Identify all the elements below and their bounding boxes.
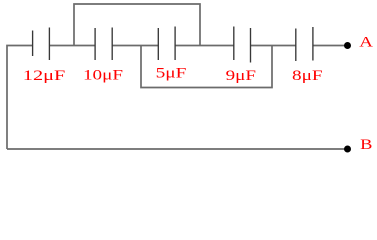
capacitor C2 10uF plates (95, 28, 112, 61)
svg-text:8μF: 8μF (292, 68, 323, 84)
wire: main segment C5 right plate to terminal A (313, 45, 348, 47)
node A terminal dot (344, 42, 351, 49)
wire: top bridge (up at x=74, across y=4, down at x=200) (74, 4, 200, 46)
capacitor C1 12uF plates (33, 28, 50, 61)
svg-text:B: B (360, 137, 372, 153)
svg-text:5μF: 5μF (156, 66, 187, 82)
wire: main segment C4 right plate to C5 left plate (junction at x=272) (251, 45, 296, 47)
wire: bottom bridge (down at x=141, across y=87.5, up at x=272) (141, 46, 272, 88)
svg-text:12μF: 12μF (23, 68, 66, 84)
wire: main segment C2 right plate to C3 left plate (junction at x=141) (112, 45, 158, 47)
capacitor C5 8uF plates (296, 27, 313, 61)
capacitor C4 9uF plates (234, 27, 251, 63)
capacitor C3 5uF plates (158, 27, 175, 61)
wire: left rail (down to bottom rail) and main-line segment to C1 left plate (7, 46, 33, 150)
svg-text:9μF: 9μF (226, 68, 256, 84)
svg-text:A: A (359, 34, 373, 50)
wire: main segment C1 right plate to C2 left plate (junction at x=74) (49, 45, 95, 47)
svg-text:10μF: 10μF (83, 68, 123, 84)
node B terminal dot (344, 146, 351, 153)
wire: bottom rail from left corner to terminal B (7, 148, 348, 150)
wire: main segment C3 right plate to C4 left plate (junction at x=200) (175, 45, 234, 47)
